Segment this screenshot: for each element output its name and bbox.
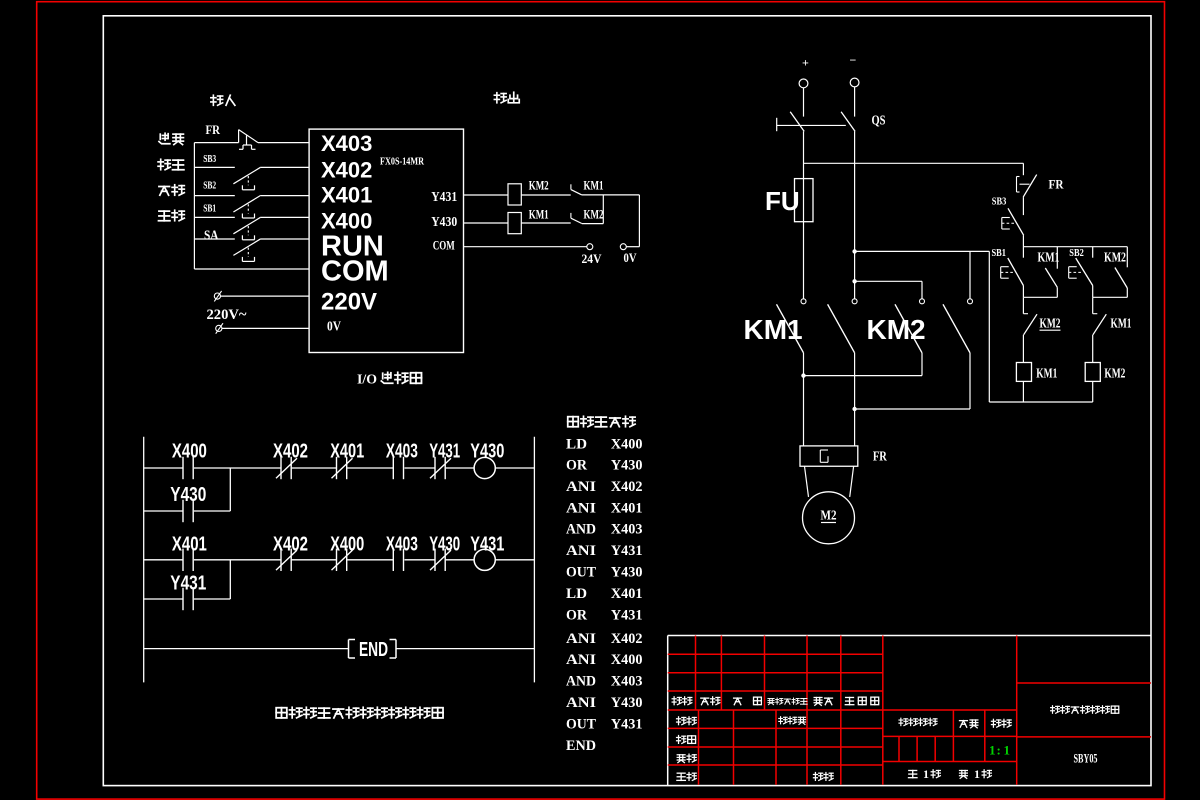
wire FR to SB3 <box>1022 197 1024 215</box>
svg-text:Y431: Y431 <box>170 573 206 595</box>
svg-text:X400: X400 <box>172 440 207 462</box>
coil KM1 <box>1016 363 1031 382</box>
svg-text:X401: X401 <box>611 586 643 602</box>
rung 1 wire <box>144 467 183 469</box>
svg-text:X403: X403 <box>386 440 418 462</box>
wire FR to motor right <box>850 466 854 497</box>
wire COM return row <box>194 268 309 270</box>
svg-text:KM1: KM1 <box>1038 250 1060 265</box>
junction dot <box>801 373 805 377</box>
ladder caption: motor fwd/rev/stop control ladder diagram <box>276 708 287 718</box>
crossover wire pole2 to pole4 <box>855 408 970 410</box>
svg-text:LD: LD <box>566 586 587 602</box>
svg-text:COM: COM <box>433 237 455 252</box>
contact Y431 (seal-in NO) <box>182 588 184 610</box>
contact X400 (NO) <box>182 457 184 479</box>
auxiliary contact KM1 (seal-in) <box>1056 247 1058 269</box>
svg-text:X400: X400 <box>611 437 643 453</box>
svg-text:Y430: Y430 <box>611 695 643 711</box>
terminal 0V <box>620 244 626 250</box>
svg-text:OUT: OUT <box>566 565 596 581</box>
contact Y431 (NC) <box>434 457 436 479</box>
interlock NC contact KM1 <box>1093 313 1098 315</box>
svg-text:−: − <box>850 53 857 67</box>
junction dot <box>852 249 856 253</box>
wire to 0V terminal <box>638 195 640 247</box>
relay coil KM2 (Y431 output) <box>508 184 521 205</box>
svg-text:Y431: Y431 <box>470 533 504 555</box>
ladder right rail <box>533 437 535 683</box>
contact X403 (NO, rung2) <box>392 549 394 571</box>
svg-text:FR: FR <box>1049 176 1065 191</box>
svg-text:0V: 0V <box>327 319 341 334</box>
pushbutton SB3 (input X402) <box>194 166 234 168</box>
instruction list title: dian ji zheng fan zhuan <box>568 417 579 427</box>
wire FR to motor left <box>805 466 809 497</box>
contact X401 (NC) <box>336 457 338 479</box>
svg-text:ANI: ANI <box>566 631 596 647</box>
svg-text:OUT: OUT <box>566 717 596 733</box>
output coil Y431 <box>474 549 495 570</box>
svg-text:X401: X401 <box>321 182 372 207</box>
svg-text:M2: M2 <box>821 509 837 524</box>
contactor KM2 main pole 4 <box>968 299 973 304</box>
wire QS right pole down <box>854 131 856 298</box>
svg-text:X403: X403 <box>611 674 643 690</box>
svg-text:Y431: Y431 <box>611 607 643 623</box>
knife switch QS <box>776 118 778 131</box>
thermal NC contact FR (control) <box>1023 175 1036 198</box>
svg-text:ANI: ANI <box>566 543 596 559</box>
svg-text:SB1: SB1 <box>992 248 1007 259</box>
svg-text:I/O: I/O <box>357 373 377 388</box>
svg-text:AND: AND <box>566 522 596 538</box>
wire + terminal to QS <box>803 88 805 117</box>
PLC box FX0S-14MR <box>309 129 463 352</box>
svg-text:ANI: ANI <box>566 652 596 668</box>
svg-text:1: 1 <box>923 767 929 781</box>
wire branch to KM2 pole 4 <box>969 251 971 298</box>
rung 2 wire <box>144 559 183 561</box>
wire FU to KM1 pole 1 <box>803 222 805 299</box>
svg-text:X402: X402 <box>273 533 308 555</box>
interlock NC contact KM2 <box>1023 313 1028 315</box>
output coil Y430 <box>474 457 495 478</box>
label shu-ru (input) <box>211 95 223 105</box>
wire coil KM2 to contact KM1 <box>521 194 570 196</box>
svg-text:Y430: Y430 <box>470 440 504 462</box>
svg-text::: : <box>997 743 1001 758</box>
input common rail <box>193 143 195 269</box>
junction dot <box>852 407 856 411</box>
svg-text:END: END <box>359 639 388 661</box>
svg-text:X400: X400 <box>611 652 643 668</box>
drawing title: kong zhi yuan li jie xian tu <box>1051 706 1060 714</box>
motor M2 <box>803 492 855 544</box>
svg-text:X402: X402 <box>321 158 372 183</box>
svg-text:1: 1 <box>989 743 996 758</box>
relay coil KM1 (Y430 output) <box>508 213 521 234</box>
wire coil KM1 to contact KM2 <box>521 222 570 224</box>
control circuit left return rail <box>988 251 990 402</box>
branch top rail <box>1023 246 1127 248</box>
title block red grid <box>668 653 883 655</box>
svg-text:OR: OR <box>566 457 587 473</box>
wire COM row to 24V terminal <box>464 246 587 248</box>
contact X402 (NC, rung2) <box>280 549 282 571</box>
title block row labels <box>677 717 686 725</box>
svg-text:SB2: SB2 <box>203 179 216 191</box>
control circuit bottom rail <box>989 401 1092 403</box>
svg-text:QS: QS <box>872 114 886 129</box>
terminal 24V <box>587 244 593 250</box>
svg-text:X402: X402 <box>273 440 308 462</box>
svg-text:FX0S-14MR: FX0S-14MR <box>380 156 425 168</box>
control tap wire to FR contact <box>804 162 1024 164</box>
wire to coil KM1 <box>1022 335 1024 363</box>
wire QS to FU <box>803 131 805 178</box>
wire down to FR NC contact <box>1022 163 1024 175</box>
svg-text:1: 1 <box>974 767 980 781</box>
svg-text:X403: X403 <box>611 522 643 538</box>
contactor KM2 main pole 3 <box>920 299 925 304</box>
label shu-chu (output) <box>494 93 506 103</box>
svg-text:COM: COM <box>321 256 389 288</box>
svg-text:X402: X402 <box>611 479 643 495</box>
wire branch to KM2 pole 3 <box>855 280 922 282</box>
wire contact KM1 to 0V branch <box>582 194 640 196</box>
svg-text:ANI: ANI <box>566 695 596 711</box>
contact KM2 (Y430 row) <box>570 213 572 218</box>
svg-text:Y431: Y431 <box>611 543 643 559</box>
svg-text:SB3: SB3 <box>992 196 1007 207</box>
wire branch B down <box>1092 297 1094 313</box>
thermal contact FR (input) <box>238 130 240 143</box>
wire FR row to X403 <box>194 142 238 144</box>
contactor KM1 main pole 1 <box>801 299 806 304</box>
title block outline (white) <box>668 635 1151 637</box>
svg-text:X401: X401 <box>611 500 643 516</box>
wire SB3 to branch rail <box>1022 235 1024 257</box>
svg-text:Y430: Y430 <box>611 565 643 581</box>
svg-text:0V: 0V <box>624 250 637 265</box>
label guo-zai (overload) <box>159 133 170 144</box>
svg-text:KM1: KM1 <box>1111 316 1132 331</box>
label zheng-zhuan (forward) <box>159 211 170 221</box>
junction dot <box>852 279 856 283</box>
label ting-zhi (stop) <box>158 159 170 170</box>
svg-text:END: END <box>566 738 596 754</box>
svg-text:KM1: KM1 <box>529 206 549 221</box>
branch A rejoin wire <box>1023 296 1057 298</box>
selector switch SA (input RUN) <box>194 238 234 240</box>
coil KM2 <box>1085 363 1100 382</box>
svg-text:KM2: KM2 <box>1040 316 1061 331</box>
pushbutton SB2 (input X401) <box>194 195 234 197</box>
start button SB2 (NO) <box>1092 247 1094 258</box>
seal branch Y431 wire <box>144 598 183 600</box>
title block header texts <box>672 697 681 705</box>
svg-text:FR: FR <box>873 449 888 464</box>
svg-text:SB2: SB2 <box>1069 248 1084 259</box>
svg-text:+: + <box>802 56 809 70</box>
svg-text:SBY05: SBY05 <box>1074 751 1098 766</box>
svg-text:KM2: KM2 <box>867 314 926 345</box>
svg-text:ANI: ANI <box>566 500 596 516</box>
svg-text:Y430: Y430 <box>170 484 206 506</box>
svg-text:X401: X401 <box>172 533 207 555</box>
svg-text:X403: X403 <box>321 131 372 156</box>
sheet count: gong 1 zhang <box>908 770 917 777</box>
wire branch A down <box>1022 297 1024 313</box>
svg-text:AND: AND <box>566 674 596 690</box>
pushbutton SB1 (input X400) <box>194 216 234 218</box>
contact X402 (NC) <box>280 457 282 479</box>
svg-text:ANI: ANI <box>566 479 596 495</box>
svg-text:220V: 220V <box>321 289 377 316</box>
crossover wire pole1 to pole3 <box>804 375 923 377</box>
svg-text:KM2: KM2 <box>529 177 549 192</box>
svg-text:SB1: SB1 <box>203 203 216 215</box>
svg-text:KM1: KM1 <box>744 314 803 345</box>
svg-text:X402: X402 <box>611 631 643 647</box>
svg-text:220V~: 220V~ <box>207 307 247 323</box>
wire Y431 output row <box>464 194 509 196</box>
contact Y430 (seal-in NO) <box>182 500 184 522</box>
svg-text:KM2: KM2 <box>584 206 604 221</box>
wire pole2 down to FR heater <box>854 353 856 446</box>
svg-text:SB3: SB3 <box>203 153 216 165</box>
stop button SB3 (NC) <box>1008 208 1024 235</box>
wire coil KM1 to bottom rail <box>1022 381 1024 402</box>
wire coil KM2 to bottom rail <box>1092 381 1094 402</box>
svg-text:Y431: Y431 <box>611 717 643 733</box>
label fan-zhuan (reverse) <box>159 187 170 196</box>
svg-text:KM2: KM2 <box>1104 250 1126 265</box>
fuse FU <box>795 179 814 222</box>
svg-text:X400: X400 <box>330 533 364 555</box>
svg-text:SA: SA <box>204 228 219 243</box>
thermal relay FR heater element <box>800 446 858 466</box>
svg-text:Y430: Y430 <box>431 215 457 230</box>
start button SB1 (NO) <box>1008 258 1024 286</box>
svg-text:Y431: Y431 <box>431 190 457 205</box>
contactor KM1 main pole 2 <box>852 299 857 304</box>
seal branch Y430 wire <box>144 510 183 512</box>
svg-text:24V: 24V <box>582 251 603 266</box>
END instruction box <box>348 640 350 659</box>
svg-text:Y431: Y431 <box>429 440 460 462</box>
svg-text:LD: LD <box>566 437 587 453</box>
branch B rejoin wire <box>1093 296 1128 298</box>
svg-text:X401: X401 <box>330 440 364 462</box>
contact X403 (NO) <box>392 457 394 479</box>
wire contact KM2 joining node <box>582 223 604 225</box>
svg-text:KM2: KM2 <box>1104 366 1125 381</box>
svg-text:Y430: Y430 <box>611 457 643 473</box>
auxiliary contact KM2 (seal-in) <box>1126 247 1128 268</box>
svg-text:KM1: KM1 <box>584 177 604 192</box>
terminal 220V phase <box>214 293 220 299</box>
svg-text:FR: FR <box>206 122 221 137</box>
contact X401 (NO, rung2) <box>182 549 184 571</box>
wire pole1 down to FR heater <box>803 353 805 446</box>
wire to coil KM2 <box>1092 335 1094 363</box>
wire - terminal to QS <box>854 87 856 117</box>
svg-text:1: 1 <box>1004 743 1011 758</box>
wire to control circuit right rail <box>855 250 990 252</box>
svg-text:FU: FU <box>765 186 800 216</box>
svg-text:X403: X403 <box>386 533 418 555</box>
wire SB1 bottom <box>1022 286 1024 298</box>
svg-text:OR: OR <box>566 607 587 623</box>
svg-text:KM1: KM1 <box>1036 366 1057 381</box>
terminal 220V neutral <box>216 325 222 331</box>
sheet number: di 1 zhang <box>960 770 968 778</box>
END rung wire <box>144 648 349 650</box>
contact KM1 (Y431 row) <box>570 184 572 189</box>
ladder left rail <box>143 437 145 683</box>
contact X400 (NC, rung2) <box>336 549 338 571</box>
wire Y430 output row <box>464 222 509 224</box>
svg-text:Y430: Y430 <box>429 533 460 555</box>
contact Y430 (NC, rung2) <box>434 549 436 571</box>
